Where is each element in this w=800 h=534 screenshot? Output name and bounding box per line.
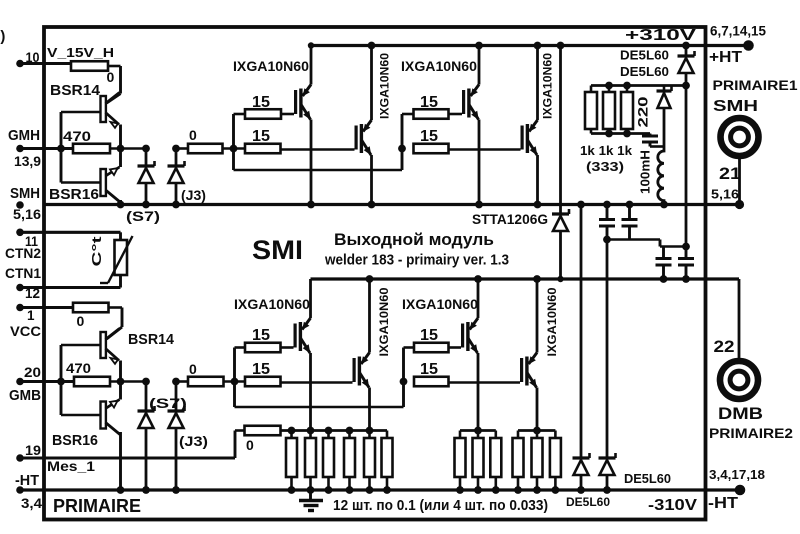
resistor 15 Q5 gate: [235, 327, 294, 352]
pin 1 VCC: [10, 304, 73, 339]
svg-text:0): 0): [0, 28, 5, 45]
label 1k 1k 1k (333): [580, 143, 633, 174]
shunt resistor 0.1 #7: [455, 431, 466, 494]
node gate driver output high: [57, 145, 124, 153]
svg-text:5,16: 5,16: [711, 187, 739, 202]
snubber bottom bus: [591, 130, 650, 138]
svg-text:3,4,17,18: 3,4,17,18: [709, 467, 765, 482]
svg-text:15: 15: [420, 94, 438, 111]
svg-text:0: 0: [189, 361, 197, 377]
svg-text:IXGA10N60: IXGA10N60: [233, 59, 309, 74]
shunt resistor 0.1 #12: [550, 431, 561, 494]
node gate split high pair2: [398, 114, 406, 170]
svg-text:15: 15: [420, 327, 438, 344]
svg-text:0: 0: [77, 313, 85, 329]
svg-text:470: 470: [63, 129, 91, 144]
label SMI: [252, 235, 303, 265]
terminal PRIMAIRE1 SMH 21: [711, 78, 798, 209]
label 3,4,17,18 -HT: [708, 467, 765, 512]
svg-text:470: 470: [66, 361, 91, 376]
svg-text:(J3): (J3): [179, 433, 208, 449]
svg-text:(333): (333): [586, 159, 624, 174]
wire BSR16 low emitter: [119, 382, 122, 400]
svg-text:IXGA10N60: IXGA10N60: [545, 287, 559, 356]
snubber top bus: [591, 82, 690, 247]
pin 20 GMB: [9, 365, 73, 404]
svg-text:SMH: SMH: [10, 185, 40, 202]
svg-text:-310V: -310V: [648, 497, 698, 514]
wire cap bottom bus: [607, 240, 686, 247]
pin 12 CTN1: [5, 265, 121, 301]
svg-text:100mH: 100mH: [639, 150, 653, 194]
capacitor C1a: [599, 201, 615, 244]
pin -HT 3,4: [15, 473, 42, 511]
resistor 0 gate feed high: [176, 127, 245, 153]
svg-text:12 шт. по 0.1 (или 4 шт. по 0.: 12 шт. по 0.1 (или 4 шт. по 0.033): [333, 498, 548, 514]
IGBT Q5 IXGA10N60: [234, 279, 314, 434]
svg-text:Выходной модуль: Выходной модуль: [334, 230, 494, 249]
resistor 0 gate feed low: [176, 361, 245, 386]
SMH mid rail wire: [44, 203, 740, 206]
resistor 0 Mes_1: [235, 426, 281, 453]
svg-text:(S7): (S7): [126, 208, 160, 224]
wire BSR14 low emitter: [119, 361, 122, 382]
label -310V: [648, 497, 698, 514]
svg-text:BSR16: BSR16: [52, 433, 98, 449]
svg-text:5,16: 5,16: [13, 206, 41, 222]
svg-text:21: 21: [719, 165, 741, 183]
wire BSR16 base: [61, 149, 101, 183]
svg-text:1k 1k 1k: 1k 1k 1k: [580, 143, 633, 158]
pin SMH 5,16: [10, 185, 41, 222]
wire Mes_1 riser: [234, 431, 237, 459]
svg-text:(S7): (S7): [149, 395, 187, 411]
svg-text:BSR16: BSR16: [49, 187, 99, 203]
transistor BSR16 (high side driver): [49, 167, 120, 203]
transistor BSR16 (low side driver): [52, 400, 120, 450]
svg-text:GMB: GMB: [9, 387, 41, 404]
wire BSR14 base: [61, 112, 101, 149]
shunt resistor 0.1 #10: [513, 431, 524, 494]
IGBT Q1 IXGA10N60: [233, 42, 315, 208]
diode (S7) high: [126, 145, 160, 224]
svg-text:C°t: C°t: [89, 235, 104, 266]
wire BSR16 low collector to -HT: [117, 432, 125, 494]
svg-text:DE5L60: DE5L60: [624, 472, 671, 486]
svg-text:10: 10: [26, 50, 40, 65]
diode (S7) low: [138, 378, 188, 494]
diode DE5L60 second: [620, 64, 672, 147]
svg-text:PRIMAIRE1: PRIMAIRE1: [713, 78, 799, 93]
svg-text:Mes_1: Mes_1: [47, 459, 96, 474]
svg-text:(J3): (J3): [181, 187, 206, 203]
transistor BSR14 (low side driver): [101, 329, 175, 364]
resistor 0 VCC: [73, 303, 109, 329]
svg-text:IXGA10N60: IXGA10N60: [234, 297, 310, 312]
node cap2 top: [682, 243, 690, 251]
svg-text:CTN2: CTN2: [5, 245, 41, 261]
svg-text:STTA1206G: STTA1206G: [472, 211, 548, 227]
svg-text:IXGA10N60: IXGA10N60: [378, 53, 392, 119]
pin GMH 13,9: [8, 127, 73, 169]
node gate split low pair1: [231, 348, 239, 408]
svg-text:-HT: -HT: [708, 495, 739, 512]
label +310V: [625, 27, 696, 44]
shunt resistor 0.1 #6: [382, 431, 393, 494]
wire V_15V_H to BSR14 collector: [107, 66, 121, 103]
svg-text:6,7,14,15: 6,7,14,15: [710, 24, 766, 39]
wire BSR14 emitter to gate node: [119, 125, 122, 149]
wire gate feed low to pair2: [235, 406, 404, 409]
svg-text:+310V: +310V: [625, 27, 696, 44]
diode DE5L60 bottom 2: [599, 240, 672, 494]
resistor 1k #1: [585, 86, 597, 134]
label PRIMAIRE: [53, 496, 141, 516]
svg-text:DE5L60: DE5L60: [566, 495, 610, 509]
svg-text:DMB: DMB: [718, 405, 763, 423]
node -HT terminal dot 3,4,17,18: [735, 485, 746, 496]
svg-text:DE5L60: DE5L60: [620, 48, 669, 63]
shunt resistor 0.1 #1: [286, 431, 297, 494]
shunt resistor 0.1 #9: [490, 431, 501, 494]
IGBT Q7 IXGA10N60: [402, 275, 482, 434]
shunt bus group 3: [460, 429, 496, 432]
resistor 15 Q7 gate: [404, 327, 462, 352]
svg-text:IXGA10N60: IXGA10N60: [401, 59, 477, 74]
svg-text:SMI: SMI: [252, 235, 303, 265]
capacitor C2b: [678, 247, 694, 283]
pin 10: [16, 50, 71, 67]
svg-text:-HT: -HT: [15, 473, 39, 489]
shunt bus group 4: [518, 429, 555, 432]
capacitor C2a: [656, 247, 672, 283]
IGBT Q3 IXGA10N60: [401, 42, 483, 209]
svg-text:PRIMAIRE: PRIMAIRE: [53, 496, 141, 516]
resistor 470 high: [63, 129, 146, 153]
module border frame: [44, 27, 706, 520]
resistor 1k #2: [603, 86, 615, 134]
diode DE5L60 bottom 1: [566, 201, 610, 509]
capacitor C1b: [622, 201, 638, 240]
svg-text:0: 0: [246, 437, 254, 453]
node gate split low pair2: [400, 348, 408, 408]
svg-text:IXGA10N60: IXGA10N60: [377, 287, 391, 356]
wire BSR14 low base: [61, 345, 101, 382]
shunt resistor 0.1 #3: [323, 431, 334, 494]
shunt resistor 0.1 #5: [364, 431, 375, 494]
svg-text:BSR14: BSR14: [128, 332, 174, 348]
corner figure label: [0, 28, 5, 45]
svg-text:220: 220: [636, 97, 651, 128]
resistor 15 Q6 gate: [245, 361, 353, 386]
svg-text:15: 15: [420, 128, 438, 145]
shunt resistor 0.1 #11: [532, 431, 543, 494]
shunt bus group 1-2: [281, 427, 388, 435]
wire BSR16 low base: [61, 382, 101, 416]
wire BSR16 collector to SMH rail: [117, 200, 125, 208]
+310V rail wire: [311, 44, 749, 47]
thermistor C°t: [89, 232, 133, 287]
resistor 15 Q1 gate: [234, 94, 295, 119]
resistor 15 Q2 gate: [245, 128, 355, 153]
svg-text:15: 15: [252, 361, 270, 378]
label shunt note: [333, 498, 548, 514]
svg-text:19: 19: [25, 443, 41, 458]
diode DE5L60 top: [620, 42, 695, 86]
svg-text:BSR14: BSR14: [50, 83, 100, 99]
wire BSR16 emitter up: [119, 149, 122, 168]
IGBT Q2 IXGA10N60: [355, 42, 392, 209]
resistor 15 Q3 gate: [402, 94, 462, 119]
IGBT Q4 IXGA10N60: [521, 42, 555, 209]
svg-text:IXGA10N60: IXGA10N60: [541, 53, 555, 119]
wire gate feed high to pair2: [234, 169, 403, 172]
node gate driver output low: [57, 378, 124, 386]
svg-text:IXGA10N60: IXGA10N60: [402, 297, 478, 312]
pin 19 Mes_1: [16, 443, 235, 474]
resistor 15 Q4 gate: [414, 128, 521, 153]
resistor 1k #3: [621, 86, 633, 134]
svg-text:V_15V_H: V_15V_H: [47, 46, 114, 60]
label title: [324, 230, 509, 269]
diode (J3) high: [168, 145, 207, 209]
svg-text:15: 15: [252, 128, 270, 145]
svg-text:1: 1: [27, 308, 35, 323]
svg-text:15: 15: [252, 327, 270, 344]
ground: [299, 490, 323, 511]
-HT bottom rail wire: [20, 488, 740, 491]
resistor 15 Q8 gate: [414, 361, 520, 386]
IGBT Q6 IXGA10N60: [353, 275, 392, 434]
shunt resistor 0.1 #8: [473, 431, 484, 494]
svg-text:3,4: 3,4: [21, 495, 42, 511]
pin 11 CTN2: [5, 229, 121, 262]
svg-text:22: 22: [714, 338, 735, 356]
node gate split high pair1: [230, 114, 238, 170]
node +HT terminal dot 6,7,14,15: [743, 40, 754, 51]
svg-text:SMH: SMH: [713, 98, 758, 115]
terminal PRIMAIRE2 DMB 22: [709, 279, 793, 441]
svg-text:15: 15: [252, 94, 270, 111]
svg-text:0: 0: [107, 69, 115, 85]
svg-text:0: 0: [189, 127, 197, 143]
shunt resistor 0.1 #2: [305, 431, 316, 494]
svg-text:VCC: VCC: [10, 323, 41, 339]
IGBT Q8 IXGA10N60: [520, 275, 559, 434]
resistor 470 low: [66, 361, 146, 386]
diode STTA1206G: [472, 42, 569, 283]
svg-text:DE5L60: DE5L60: [620, 64, 669, 79]
capacitor 220: [636, 97, 665, 147]
label 6,7,14,15 +HT: [709, 24, 766, 67]
shunt resistor 0.1 #4: [344, 431, 355, 494]
svg-text:12: 12: [25, 286, 40, 301]
transistor BSR14 (high side driver): [50, 83, 120, 128]
inductor 100mH: [639, 147, 668, 209]
svg-text:15: 15: [420, 361, 438, 378]
svg-text:PRIMAIRE2: PRIMAIRE2: [709, 426, 793, 441]
svg-text:welder 183 - primairy ver. 1.3: welder 183 - primairy ver. 1.3: [324, 253, 509, 269]
svg-text:13,9: 13,9: [14, 153, 41, 169]
wire VCC to BSR14 low collector: [107, 308, 123, 340]
svg-text:+HT: +HT: [709, 49, 743, 66]
resistor V_15V_H 0: [47, 46, 115, 85]
svg-text:CTN1: CTN1: [5, 265, 41, 281]
DMB rail wire: [311, 277, 740, 280]
svg-text:GMH: GMH: [8, 127, 40, 144]
diode (J3) low: [168, 378, 209, 494]
svg-text:20: 20: [24, 365, 41, 380]
